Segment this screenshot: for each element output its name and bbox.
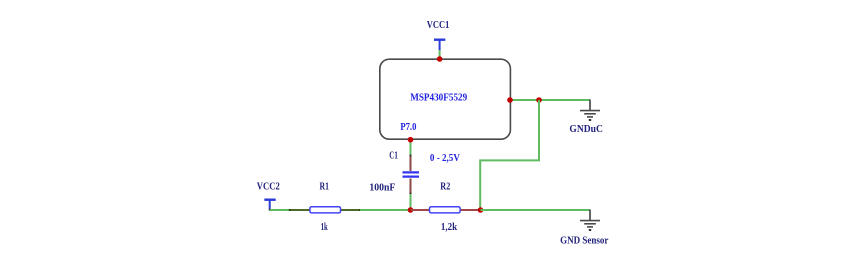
- junction chip top pin: [437, 56, 443, 62]
- wire VCC1 stub: [439, 50, 441, 59]
- junction chip right pin: [507, 97, 513, 103]
- svg-text:1k: 1k: [321, 221, 329, 233]
- wire VCC2 to R1: [270, 209, 310, 211]
- svg-text:GNDuC: GNDuC: [569, 123, 603, 135]
- svg-text:0 - 2,5V: 0 - 2,5V: [430, 152, 460, 164]
- junction R2 right node: [478, 207, 484, 213]
- ground GNDuC: [569, 100, 603, 136]
- IC MSP430F5529: [380, 59, 511, 139]
- power VCC1: [427, 19, 450, 51]
- wire chip right to GNDuC: [510, 99, 590, 101]
- svg-text:1,2k: 1,2k: [441, 221, 458, 233]
- svg-text:R2: R2: [440, 181, 450, 193]
- svg-text:C1: C1: [389, 150, 398, 162]
- wire C1 to bottom net: [410, 194, 412, 210]
- svg-text:R1: R1: [320, 181, 330, 193]
- junction R1/C1/R2 node: [408, 207, 414, 213]
- wire R1 to C1 junction: [360, 209, 411, 211]
- junction on GNDuC wire: [536, 97, 542, 103]
- svg-text:100nF: 100nF: [369, 182, 395, 194]
- svg-text:P7.0: P7.0: [400, 121, 416, 133]
- resistor R2: [411, 207, 481, 213]
- svg-text:GND Sensor: GND Sensor: [560, 234, 608, 246]
- junction chip bottom pin: [408, 137, 414, 143]
- capacitor C1: [403, 155, 420, 195]
- svg-text:MSP430F5529: MSP430F5529: [410, 91, 467, 103]
- svg-text:VCC1: VCC1: [427, 19, 450, 31]
- wire chip bottom pin to C1: [410, 140, 412, 156]
- power VCC2: [257, 180, 280, 210]
- wire vertical from GNDuC net down: [480, 100, 539, 210]
- resistor R1: [289, 207, 361, 213]
- ground GND Sensor: [560, 210, 608, 247]
- svg-text:VCC2: VCC2: [257, 180, 280, 192]
- wire R2 to GND Sensor: [481, 209, 591, 211]
